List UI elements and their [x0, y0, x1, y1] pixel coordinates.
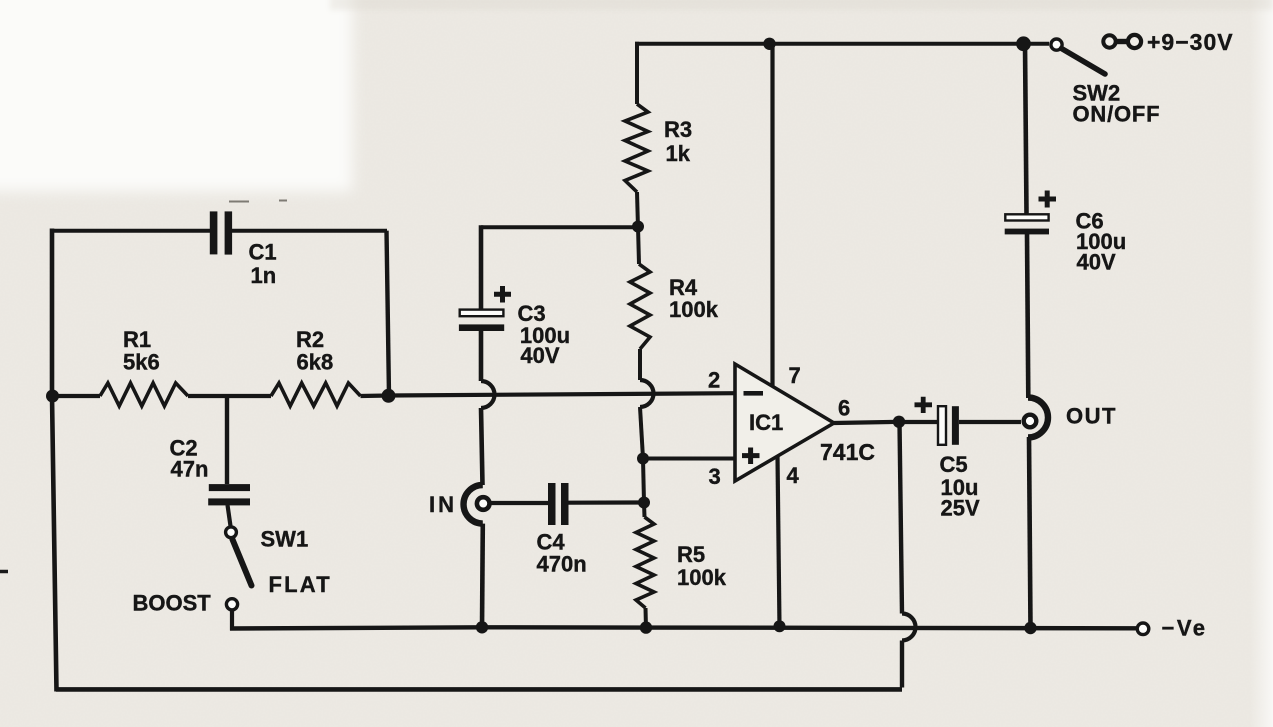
capacitor C3 (electrolytic, + top): [459, 286, 570, 368]
capacitor C2: [170, 436, 251, 506]
wire: ground rail (-Ve rail): [230, 627, 1137, 628]
wire: R3 bottom lead to node: [637, 192, 638, 228]
svg-text:IN: IN: [429, 492, 457, 517]
wire: OUT shield to ground rail: [1029, 437, 1031, 628]
svg-text:OUT: OUT: [1066, 404, 1117, 429]
svg-text:3: 3: [709, 464, 721, 489]
resistor R1: [100, 327, 188, 406]
wire: pin 4 to ground rail: [778, 456, 780, 627]
svg-text:100k: 100k: [669, 297, 719, 322]
wire: R2 to junction and inverting-input run to pin 2: [361, 393, 737, 396]
terminal +9-30V (plug and socket): [1103, 29, 1233, 55]
node: C6/OUT shield ground junction: [1024, 622, 1036, 634]
wire: C1 loop top left: [50, 229, 210, 233]
capacitor C5 (electrolytic, + left): [915, 397, 980, 521]
resistor R5: [636, 517, 727, 608]
wire: R5 top lead: [642, 503, 647, 518]
svg-text:R2: R2: [296, 327, 324, 352]
svg-text:C1: C1: [249, 240, 277, 265]
wire: junction to C4 node: [643, 459, 644, 503]
svg-text:2: 2: [708, 368, 720, 393]
wire: left vertical (feedback to R1/C1 node): [52, 229, 57, 692]
stray mark: dash at left edge: [0, 570, 8, 574]
terminal -Ve: [1137, 616, 1207, 641]
svg-text:R5: R5: [677, 542, 705, 567]
wire: pin 6 output: [834, 422, 899, 423]
svg-text:47n: 47n: [171, 457, 209, 482]
wire: hop of C3/IN line over pin-2 wire: [481, 381, 495, 408]
wire: feedback vertical from output: [900, 422, 903, 614]
wire: C4 to pin-3 node: [569, 500, 645, 504]
wire: IN pin to C4: [490, 501, 548, 505]
wire: IN shield down to ground rail: [480, 524, 485, 629]
wire: pin 3 input wire: [643, 457, 736, 461]
capacitor C6 (electrolytic, + top): [1005, 191, 1126, 275]
wire: C2 top lead: [225, 396, 229, 484]
wire: down to pin-3 node: [640, 407, 643, 459]
wire: R1-R2 middle segment (C2 tap): [188, 394, 271, 398]
node: C4/R5 junction: [638, 497, 650, 509]
wire: C1 loop top right: [232, 229, 387, 233]
svg-text:40V: 40V: [520, 343, 559, 368]
wire: C6 bottom lead down to OUT shield: [1027, 234, 1028, 398]
switch SW2 ON/OFF: [1051, 39, 1161, 127]
wire: feedback down to bottom run: [900, 641, 904, 688]
node: pin-3 wire junction: [637, 453, 649, 465]
node: R3/R4/C3 junction: [632, 221, 644, 233]
svg-text:SW1: SW1: [261, 527, 309, 552]
node: pin-4 ground junction: [774, 620, 786, 632]
svg-text:741C: 741C: [820, 439, 875, 465]
svg-text:−Ve: −Ve: [1162, 616, 1208, 641]
node: R5 ground junction: [640, 621, 652, 633]
stray mark: faint dashes above C1: [229, 201, 287, 202]
wire: R3 top lead: [635, 42, 639, 104]
wire: +V top rail: [635, 42, 1049, 46]
wire: C3 top vertical lead: [479, 225, 484, 310]
svg-text:IC1: IC1: [749, 410, 783, 435]
wire: output to C5: [899, 420, 938, 424]
svg-text:R1: R1: [123, 327, 151, 352]
svg-text:470n: 470n: [537, 552, 587, 577]
resistor R2: [271, 327, 361, 406]
wire: vertical down to IN jack: [481, 408, 483, 485]
svg-text:4: 4: [787, 463, 800, 488]
node: output junction: [893, 416, 905, 428]
switch SW1 (FLAT/BOOST): [133, 527, 332, 616]
svg-text:5k6: 5k6: [123, 350, 160, 375]
svg-text:C5: C5: [940, 452, 968, 477]
wire: R4 bottom lead: [638, 349, 642, 380]
wire: C5 to OUT jack: [959, 420, 1021, 424]
op-amp IC1 741C: [708, 363, 875, 489]
wire: BOOST terminal down to ground rail: [230, 611, 234, 631]
svg-text:40V: 40V: [1077, 250, 1116, 275]
svg-text:R3: R3: [664, 117, 692, 142]
svg-text:+9−30V: +9−30V: [1147, 29, 1234, 55]
wire: C3 top horizontal: [481, 225, 638, 229]
capacitor C4: [537, 483, 587, 577]
node: R1/C1 left junction: [46, 390, 59, 403]
wire: C3 bottom lead: [479, 331, 484, 381]
node: IN shield ground junction: [476, 621, 488, 633]
svg-text:1n: 1n: [251, 263, 277, 288]
svg-text:25V: 25V: [941, 496, 980, 521]
capacitor C1: [210, 211, 277, 288]
svg-text:FLAT: FLAT: [269, 572, 332, 597]
svg-text:6k8: 6k8: [297, 350, 334, 375]
wire: R5 bottom lead: [644, 608, 649, 629]
wire: C1 loop right vertical: [387, 231, 390, 396]
svg-text:ON/OFF: ON/OFF: [1073, 102, 1161, 127]
svg-text:BOOST: BOOST: [133, 591, 212, 616]
connector OUT jack (centre pin + shield arc): [1024, 398, 1117, 438]
resistor R3: [625, 104, 692, 192]
wire: C2 bottom lead to SW1: [228, 505, 231, 526]
svg-text:1k: 1k: [666, 141, 691, 166]
wire: R4 top lead: [638, 227, 639, 265]
wire: pin 7 to +V rail: [770, 44, 774, 386]
svg-text:7: 7: [789, 363, 801, 388]
resistor R4: [630, 264, 719, 349]
connector IN jack (shield arc + centre pin): [429, 485, 490, 524]
wire: left lead of R1: [52, 394, 100, 398]
node: pin-7 rail junction: [763, 38, 775, 50]
svg-text:6: 6: [838, 396, 850, 421]
wire: bottom feedback run: [56, 687, 902, 692]
wire: hop of feedback line over ground rail: [902, 614, 915, 641]
wire: hop of R4 lead over pin-2 wire: [640, 380, 654, 407]
node: +V rail / SW2 branch junction: [1016, 36, 1031, 51]
wire: C6 top lead from rail: [1025, 44, 1027, 214]
svg-text:100k: 100k: [677, 565, 727, 590]
node: R2/C1 junction: [382, 389, 396, 403]
